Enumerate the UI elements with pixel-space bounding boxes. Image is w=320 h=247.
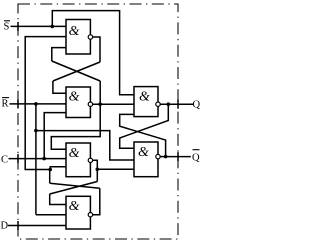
gate U5 output bubble <box>156 102 160 106</box>
wire C input line to U3 pin2 <box>9 158 67 160</box>
node R lower junction <box>34 129 38 133</box>
wire Q feedback: down, diagonal, into U6 pin1 <box>120 104 169 148</box>
node N4 junction <box>48 168 52 172</box>
wire N3 into U4 pin1 <box>50 194 66 205</box>
svg-text:C: C <box>1 155 8 166</box>
wire S to U5: up, top run, down, into U5 pin1 <box>52 11 134 95</box>
svg-text:R: R <box>2 99 9 110</box>
svg-text:Q: Q <box>192 153 200 164</box>
wire D input line to U4 pin3 <box>8 225 66 227</box>
gate U3 box <box>66 143 90 177</box>
wire N3 to U6 pin3 <box>97 168 134 170</box>
svg-text:&: & <box>69 146 80 161</box>
wire Qbar feedback: up, diagonal, into U5 pin3 <box>120 114 166 156</box>
wire N1 into U2 pin1 <box>53 81 66 93</box>
node S-U1/U5 junction <box>51 25 55 29</box>
wire U1 pin3 from crossover <box>52 48 66 61</box>
border tick at S input <box>17 22 19 31</box>
border tick at C input <box>17 154 19 163</box>
svg-text:D: D <box>1 221 9 232</box>
svg-text:&: & <box>69 24 80 39</box>
gate U2 output bubble <box>88 102 92 106</box>
node Q junction <box>167 102 171 106</box>
wire N4: U4 output to riser <box>93 188 100 214</box>
wire S input line <box>11 25 67 27</box>
wire N2 diagonal crossover <box>52 61 100 81</box>
wire C branch up to U2 pin3 <box>44 113 66 159</box>
node C junction <box>42 157 46 161</box>
svg-text:S: S <box>4 22 10 33</box>
wire N4 up to junction <box>49 170 51 184</box>
wire N2 riser to output line <box>99 81 101 104</box>
border tick at D input <box>17 221 19 230</box>
wire Qbar output line <box>160 156 191 158</box>
node N3 junction <box>96 168 100 172</box>
node Qbar junction <box>164 155 168 159</box>
gate U1 output bubble <box>88 35 92 39</box>
wire R branch into U4 pin2 <box>36 214 66 216</box>
dash-dot border frame <box>18 4 178 239</box>
wire N1 diagonal crossover <box>53 62 100 81</box>
node N2 junction <box>98 102 102 106</box>
wire N2 branch down to U3 pin1 <box>51 104 100 149</box>
wire N3: U3 output down to junction <box>93 160 98 169</box>
svg-text:&: & <box>69 90 80 105</box>
node R main junction <box>34 102 38 106</box>
gate U6 output bubble <box>156 154 160 158</box>
gate U6 box <box>134 142 158 177</box>
wire R drop to lower branches <box>35 104 37 215</box>
svg-text:&: & <box>138 145 149 160</box>
gate U4 box <box>66 196 90 229</box>
gate U3 output bubble <box>88 158 92 162</box>
svg-text:&: & <box>69 199 80 214</box>
gate U4 output bubble <box>88 213 92 217</box>
svg-text:&: & <box>139 90 150 105</box>
wire R input line to U2 pin2 <box>10 103 67 105</box>
wire R branch to U6 pin2 <box>36 131 134 160</box>
wire Q output line <box>160 103 193 105</box>
wire N4 jog into U3 pin3 <box>50 167 66 170</box>
border tick at Qbar output <box>177 152 179 161</box>
wire N4 long run left and up to U1 pin2 <box>25 37 66 170</box>
svg-text:Q: Q <box>193 100 201 111</box>
border tick at Q output <box>177 100 179 109</box>
border tick at R input <box>17 99 19 108</box>
gate U2 box <box>66 87 90 118</box>
wire N3 down to diagonal <box>96 169 98 181</box>
wire N2: U2 output to U5 pin2 <box>93 103 134 105</box>
wire N1: U1 output to corner <box>93 37 100 62</box>
gate U1 box <box>66 20 90 55</box>
gate U5 box <box>134 87 158 117</box>
wire N3 diagonal crossover <box>50 182 98 195</box>
wire N4 diagonal crossover <box>50 183 100 188</box>
